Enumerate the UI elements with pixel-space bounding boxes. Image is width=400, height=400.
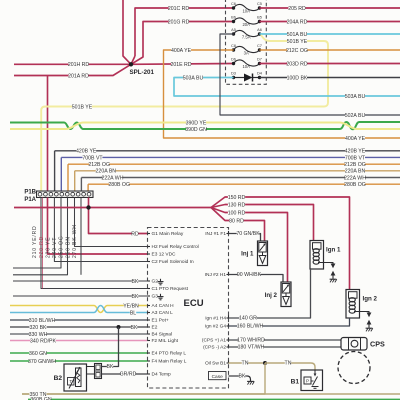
wire 201A RD drop to connector P1 pin 2 xyxy=(47,76,49,192)
svg-text:Ign #1 H4: Ign #1 H4 xyxy=(205,316,226,322)
svg-text:280B OG: 280B OG xyxy=(344,182,366,188)
wire 150 RD to Ign 2 xyxy=(211,197,344,208)
wire 130 RD to Ign 1 xyxy=(211,205,314,241)
svg-text:201E RD: 201E RD xyxy=(170,62,191,68)
wire 180 VT/WH to CPS xyxy=(229,346,342,348)
wire 201A RD xyxy=(14,64,131,75)
wire 70 GN/BK to injector 1 xyxy=(229,234,261,242)
wire 390D GN xyxy=(10,122,400,129)
wire 260 BN to ECU H2 xyxy=(75,198,148,247)
injector Inj 2 xyxy=(281,282,291,307)
stub wires B2 to connector xyxy=(87,366,95,368)
wire 370 GN/WH to ECU F4 xyxy=(10,360,148,362)
svg-text:F2 MIL Light: F2 MIL Light xyxy=(152,338,179,344)
svg-text:RD: RD xyxy=(131,231,139,237)
CAN twisted pair BL to A3 xyxy=(10,306,148,313)
svg-text:H2 Fuel Relay Control: H2 Fuel Relay Control xyxy=(152,244,199,250)
svg-text:503A BU: 503A BU xyxy=(183,75,204,81)
svg-text:C8: C8 xyxy=(231,43,236,48)
connector P1B/P1A xyxy=(37,191,94,198)
wire 270 BK/WH xyxy=(80,198,82,275)
svg-text:E4 PTO Relay L: E4 PTO Relay L xyxy=(152,351,187,357)
wire GR/RD from B2 to ECU D4 xyxy=(102,373,148,375)
wire 220A BN xyxy=(75,170,400,172)
junction node on RD feed xyxy=(86,205,90,209)
wire 503A BU feed to diode D3 xyxy=(174,78,400,97)
svg-text:INJ #1 F1: INJ #1 F1 xyxy=(205,231,226,237)
svg-text:D4: D4 xyxy=(257,71,263,76)
wire 201G RD xyxy=(131,22,234,65)
ignition coil Ign 2 xyxy=(346,290,360,319)
wire 390D YE xyxy=(10,123,400,130)
svg-text:250 OG: 250 OG xyxy=(59,235,65,258)
svg-text:TN: TN xyxy=(242,361,249,367)
wire 280B OG xyxy=(88,183,400,185)
svg-text:201C RD: 201C RD xyxy=(168,6,190,12)
svg-text:201G RD: 201G RD xyxy=(168,19,190,25)
diode D3-D4 xyxy=(234,77,245,79)
svg-text:205 RD: 205 RD xyxy=(288,6,306,12)
wire 201H RD xyxy=(14,63,129,65)
wire 320 BK to ECU E2 xyxy=(10,326,148,328)
svg-text:20A: 20A xyxy=(242,22,250,27)
svg-text:420B YE: 420B YE xyxy=(76,149,97,155)
svg-text:204A RD: 204A RD xyxy=(287,19,308,25)
svg-text:E2: E2 xyxy=(152,325,158,331)
wire BK from ECU Case to chassis ground xyxy=(229,375,248,377)
svg-text:100D BK: 100D BK xyxy=(287,75,308,81)
svg-text:G1 Main Relay: G1 Main Relay xyxy=(152,231,184,237)
svg-text:F4 Main Relay L: F4 Main Relay L xyxy=(152,359,187,365)
wire 201B RD from top xyxy=(123,0,131,64)
oil pressure switch B1 xyxy=(301,370,323,391)
svg-text:222A WH: 222A WH xyxy=(344,175,366,181)
svg-text:P: P xyxy=(306,379,309,384)
svg-text:502A BU: 502A BU xyxy=(345,113,366,119)
svg-text:270 BK WH: 270 BK WH xyxy=(72,224,78,258)
junction node 320 BK to B2 sensor xyxy=(117,325,121,329)
chassis ground Ign 1 xyxy=(332,276,334,279)
fuse A5-A6 7.5A xyxy=(234,30,260,36)
svg-text:280B OG: 280B OG xyxy=(108,182,130,188)
wire 100 RD to Inj 2 xyxy=(211,208,288,283)
svg-text:CPS: CPS xyxy=(370,340,385,349)
junction node TN xyxy=(263,361,267,365)
svg-text:90 WH/BK: 90 WH/BK xyxy=(237,272,262,278)
svg-text:TN: TN xyxy=(285,361,292,367)
wire 220 RD to ECU E3 xyxy=(48,198,148,255)
svg-text:Ign 1: Ign 1 xyxy=(326,247,341,254)
svg-text:212C OG: 212C OG xyxy=(286,48,308,54)
svg-text:BK: BK xyxy=(132,294,139,300)
svg-text:240 VT: 240 VT xyxy=(52,237,58,258)
svg-text:3A: 3A xyxy=(244,50,249,55)
svg-text:B6: B6 xyxy=(231,15,236,20)
svg-text:C7: C7 xyxy=(257,43,262,48)
svg-text:360 GN: 360 GN xyxy=(29,351,47,357)
svg-text:C5: C5 xyxy=(257,1,262,6)
chassis ground Case xyxy=(247,376,251,381)
svg-text:220 RD: 220 RD xyxy=(39,236,45,258)
svg-text:180 VT/WH: 180 VT/WH xyxy=(238,345,265,351)
wire 80 RD to Inj 1 xyxy=(211,208,265,242)
svg-text:D6: D6 xyxy=(231,57,236,62)
wire 240 VT stub left xyxy=(13,198,61,269)
wire 222A WH xyxy=(81,177,400,179)
wire 502A BU feed to fuse A5 xyxy=(220,34,400,115)
wire RD feed from left edge to relay splitter xyxy=(14,207,211,209)
svg-text:390D YE: 390D YE xyxy=(186,120,207,126)
svg-text:B5: B5 xyxy=(257,15,262,20)
svg-text:Ign 2: Ign 2 xyxy=(363,296,378,303)
wire 310 BL/WH to ECU E1 xyxy=(10,319,148,321)
CPS flywheel dashed circle xyxy=(338,352,370,384)
svg-text:G3: G3 xyxy=(152,294,159,300)
svg-text:C6: C6 xyxy=(231,1,236,6)
wire 90 WH/BK to injector 2 xyxy=(229,275,284,283)
fuse B6-B5 20A xyxy=(234,18,260,24)
svg-text:P1B: P1B xyxy=(24,189,36,195)
wire 501B YE branch from fuse A6 down right side and across to connector xyxy=(41,35,328,192)
svg-text:BK: BK xyxy=(132,279,139,285)
sensor CPS crankshaft position xyxy=(341,338,367,351)
svg-text:B2: B2 xyxy=(54,375,63,382)
svg-text:P1A: P1A xyxy=(24,197,36,203)
wire 250 OG stub left xyxy=(13,198,68,275)
svg-text:A3 CAN L: A3 CAN L xyxy=(152,310,174,316)
svg-text:T: T xyxy=(69,379,72,384)
svg-text:330 WH: 330 WH xyxy=(29,332,48,338)
svg-text:Inj 2: Inj 2 xyxy=(265,292,278,299)
wire 212C OG xyxy=(260,49,400,51)
wire TN to B1 xyxy=(265,363,315,370)
svg-text:(CPS -) A2: (CPS -) A2 xyxy=(203,345,226,351)
injector Inj 1 xyxy=(258,241,268,266)
fuse block dashed outline xyxy=(226,0,267,84)
svg-text:Oil Sw B1: Oil Sw B1 xyxy=(205,361,226,367)
wire 330 WH to ECU B4 xyxy=(10,333,148,335)
fuse C8-C7 3A xyxy=(234,46,260,52)
svg-text:320 BK: 320 BK xyxy=(29,325,47,331)
svg-text:100 RD: 100 RD xyxy=(228,210,246,216)
wire RD from P1 pin to ECU G1 with junction xyxy=(89,198,148,234)
wire BK from B2 to 320 BK junction xyxy=(102,327,119,367)
svg-text:7.5A: 7.5A xyxy=(242,34,251,39)
CAN twisted pair YE/BN to A4 xyxy=(10,306,148,313)
wire 201C RD xyxy=(135,8,234,56)
fuse D6-D7 10A xyxy=(234,60,260,66)
wire 501A BU xyxy=(260,33,400,35)
wire 170 WH/RD to CPS xyxy=(229,339,342,341)
svg-text:400A YE: 400A YE xyxy=(171,48,192,54)
svg-text:E1 Pot+: E1 Pot+ xyxy=(152,318,169,324)
svg-text:ECU: ECU xyxy=(184,298,204,309)
svg-text:210 YE/RD: 210 YE/RD xyxy=(32,225,38,258)
svg-text:501B YE: 501B YE xyxy=(287,39,308,45)
svg-text:400A YE: 400A YE xyxy=(345,136,366,142)
wire BK to ECU G2 xyxy=(13,280,148,282)
wire 230 YE to ECU C2 xyxy=(54,198,147,262)
temperature sensor B2 xyxy=(64,364,87,391)
svg-text:G2: G2 xyxy=(152,279,159,285)
svg-text:10A: 10A xyxy=(242,64,250,69)
svg-text:700B VT: 700B VT xyxy=(345,155,366,161)
wire 400A YE feed to fuse C8 xyxy=(164,50,400,138)
wire 420B YE xyxy=(55,150,400,152)
svg-text:340 RD/PK: 340 RD/PK xyxy=(30,338,56,344)
svg-text:C1 PTO Request: C1 PTO Request xyxy=(152,286,189,292)
svg-text:A5: A5 xyxy=(231,27,236,32)
ECU dashed box xyxy=(148,228,229,389)
fuse C6-C5 10A xyxy=(234,4,260,10)
svg-text:YE/BN: YE/BN xyxy=(123,303,139,309)
svg-text:230 YE: 230 YE xyxy=(46,237,52,258)
wire 100D BK xyxy=(260,77,400,79)
wire 160 BL/WH return from Ign 2 xyxy=(229,318,350,326)
wire 212B OG xyxy=(68,163,400,165)
svg-text:390D GN: 390D GN xyxy=(185,127,207,133)
svg-text:170 WH/RD: 170 WH/RD xyxy=(237,338,265,344)
wire BK to ECU G3 xyxy=(13,295,148,297)
svg-text:A4 CAN H: A4 CAN H xyxy=(152,303,175,309)
svg-text:700B VT: 700B VT xyxy=(82,155,103,161)
svg-text:310 BL/WH: 310 BL/WH xyxy=(29,318,56,324)
svg-text:160 BL/WH: 160 BL/WH xyxy=(237,324,264,330)
svg-text:80 RD: 80 RD xyxy=(229,218,244,224)
wire 360 GN to ECU E4 xyxy=(10,352,148,354)
svg-text:501B YE: 501B YE xyxy=(72,104,93,110)
svg-text:370 GN/WH: 370 GN/WH xyxy=(28,359,56,365)
spark gap Ign 2 xyxy=(367,313,372,318)
svg-text:140 GR: 140 GR xyxy=(239,316,257,322)
svg-text:503A BU: 503A BU xyxy=(345,94,366,100)
ignition coil Ign 1 xyxy=(310,241,324,270)
svg-text:Ign #2 G4: Ign #2 G4 xyxy=(205,324,226,330)
svg-text:D4 Temp: D4 Temp xyxy=(152,372,171,378)
wire 350 TN return to left edge xyxy=(22,363,265,394)
svg-text:501A BU: 501A BU xyxy=(287,32,308,38)
wire 340 RD/PK to ECU F2 xyxy=(10,340,148,342)
ECU Case pin label xyxy=(209,372,227,380)
svg-text:70 GN/BK: 70 GN/BK xyxy=(236,231,260,237)
wire 700B VT xyxy=(61,156,400,158)
svg-text:INJ #2 H1: INJ #2 H1 xyxy=(205,272,227,278)
Ign 2 secondary to spark gap xyxy=(354,312,369,314)
svg-text:150 RD: 150 RD xyxy=(228,195,246,201)
svg-text:BL: BL xyxy=(130,310,136,316)
svg-text:SPL-201: SPL-201 xyxy=(130,69,155,76)
svg-text:B4 Signal: B4 Signal xyxy=(152,332,173,338)
svg-text:B1: B1 xyxy=(291,379,300,386)
svg-text:222A WH: 222A WH xyxy=(102,175,124,181)
svg-text:220A BN: 220A BN xyxy=(345,169,366,175)
svg-text:212B OG: 212B OG xyxy=(344,162,366,168)
svg-text:GR/RD: GR/RD xyxy=(120,372,137,378)
svg-text:D3: D3 xyxy=(231,71,236,76)
svg-text:130 RD: 130 RD xyxy=(228,202,246,208)
wire 360B GN bottom edge xyxy=(28,398,400,400)
ECU left pin labels xyxy=(148,233,151,235)
svg-text:260 BN: 260 BN xyxy=(66,236,72,258)
svg-text:C2 Fuel Solenoid In: C2 Fuel Solenoid In xyxy=(152,259,194,265)
svg-text:Case: Case xyxy=(212,374,224,380)
svg-text:212B OG: 212B OG xyxy=(88,162,110,168)
svg-text:(CPS +) A1: (CPS +) A1 xyxy=(202,338,226,344)
svg-text:201A RD: 201A RD xyxy=(68,73,89,79)
svg-text:BK: BK xyxy=(107,364,114,370)
svg-text:203D RD: 203D RD xyxy=(286,61,308,67)
wire 140 GR return from Ign 1 xyxy=(229,269,311,318)
connector for B2 xyxy=(95,364,102,379)
wire 204A RD xyxy=(260,21,400,23)
svg-text:A6: A6 xyxy=(257,27,262,32)
wire 203D RD xyxy=(260,63,400,65)
svg-text:201H RD: 201H RD xyxy=(68,62,90,68)
splice node SPL-201 xyxy=(129,62,133,66)
svg-text:D7: D7 xyxy=(257,57,262,62)
svg-text:E3 12 VDC: E3 12 VDC xyxy=(152,252,177,258)
chassis ground Ign 2 xyxy=(368,325,370,328)
svg-text:10A: 10A xyxy=(242,8,250,13)
svg-text:220A BN: 220A BN xyxy=(96,169,117,175)
svg-text:BK: BK xyxy=(239,374,246,380)
Ign 1 secondary to spark gap xyxy=(318,263,333,265)
wire 210 YE/RD to ECU C1 xyxy=(41,198,148,289)
wire TN from ECU Oil Sw B1 xyxy=(229,362,264,364)
svg-text:Inj 1: Inj 1 xyxy=(241,251,254,258)
spark gap Ign 1 xyxy=(331,264,336,269)
svg-text:BK: BK xyxy=(131,325,138,331)
svg-text:420B YE: 420B YE xyxy=(345,149,366,155)
wire 201E RD xyxy=(131,63,234,66)
wire 205 RD xyxy=(260,7,400,9)
